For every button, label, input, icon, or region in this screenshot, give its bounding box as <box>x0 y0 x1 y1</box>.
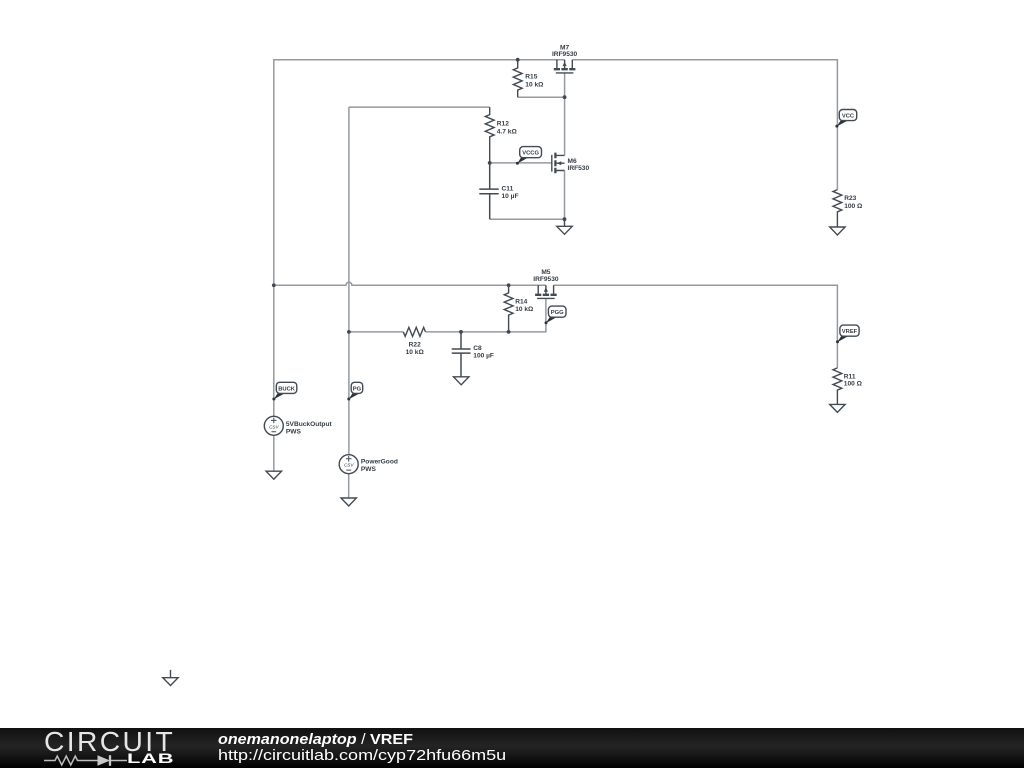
wire second rail right segment to VREF drop <box>554 285 838 368</box>
svg-text:CSV: CSV <box>344 463 354 468</box>
capacitor C11 <box>479 163 498 219</box>
flag VCCG <box>516 147 542 165</box>
resistor R14 <box>504 285 513 332</box>
footer bar <box>0 728 1024 768</box>
svg-text:C11: C11 <box>502 185 514 192</box>
node R14 top <box>507 283 511 287</box>
ground under R23 <box>830 227 845 235</box>
wire R15 bottom to M7 gate node <box>518 96 565 98</box>
node R14 bottom <box>507 330 511 334</box>
wire R22 row to M5 gate <box>349 298 546 332</box>
wire top-left BUCK net (top rail + left drop to source) <box>274 60 565 417</box>
svg-text:10 kΩ: 10 kΩ <box>515 306 534 313</box>
node R15 top <box>516 58 520 62</box>
resistor R15 <box>513 60 522 97</box>
svg-text:R23: R23 <box>844 195 856 202</box>
node M7 gate / R15 <box>563 95 567 99</box>
wire M7 gate down to node and M6 drain <box>564 73 566 155</box>
ground under PowerGood <box>341 498 356 506</box>
svg-text:VCC: VCC <box>842 114 855 120</box>
svg-text:100 µF: 100 µF <box>473 353 494 360</box>
ground under R11 <box>830 404 845 412</box>
footer title line <box>218 732 413 748</box>
transistor M6 IRF530 (NMOS) <box>552 153 565 174</box>
ground under M6 <box>557 219 572 234</box>
wire PG vertical <box>348 107 350 455</box>
ground under 5VBuckOutput <box>266 471 281 479</box>
svg-text:VCCG: VCCG <box>522 151 539 157</box>
source V1 5VBuckOutput PWS <box>264 416 283 435</box>
flag VREF <box>836 325 859 343</box>
ground under C8 <box>454 377 469 385</box>
resistor R11 <box>833 368 842 405</box>
svg-text:M6: M6 <box>568 158 577 165</box>
node VCCG <box>488 161 492 165</box>
node C8 top <box>459 330 463 334</box>
wire R12 top feed <box>349 106 490 108</box>
source V2 PowerGood PWS <box>339 455 358 474</box>
flag VCC <box>835 110 856 128</box>
svg-text:10 kΩ: 10 kΩ <box>406 349 425 356</box>
lone ground bottom-left <box>163 670 178 686</box>
node M6 source ground <box>563 217 567 221</box>
logo LAB text <box>127 751 174 766</box>
resistor R23 <box>833 190 842 227</box>
svg-text:IRF9530: IRF9530 <box>533 276 559 283</box>
svg-text:100 Ω: 100 Ω <box>844 203 863 210</box>
CircuitLab logo wordmark <box>44 725 175 758</box>
svg-text:PGG: PGG <box>551 310 564 316</box>
svg-text:PG: PG <box>353 386 362 392</box>
svg-text:C8: C8 <box>473 345 482 352</box>
svg-text:IRF9530: IRF9530 <box>552 51 578 58</box>
flag BUCK <box>272 382 296 400</box>
svg-text:R11: R11 <box>844 373 856 380</box>
svg-text:VREF: VREF <box>842 329 858 335</box>
resistor R12 <box>485 107 494 163</box>
node BUCK rail tap <box>272 283 276 287</box>
wire 5VBuckOutput source bottom <box>273 435 275 471</box>
svg-text:IRF530: IRF530 <box>568 165 590 172</box>
flag PG <box>347 382 362 400</box>
wire C11 bottom to ground node <box>490 218 565 220</box>
logo resistor-diode squiggle <box>44 754 130 767</box>
capacitor C8 <box>452 332 471 377</box>
flag PGG <box>545 306 567 324</box>
footer url line <box>218 747 506 764</box>
svg-text:BUCK: BUCK <box>278 386 296 392</box>
svg-text:10 kΩ: 10 kΩ <box>525 81 544 88</box>
svg-text:R22: R22 <box>409 341 421 348</box>
wire M6 source down <box>564 171 566 220</box>
svg-text:100 Ω: 100 Ω <box>844 381 863 388</box>
transistor M7 IRF9530 (PMOS, pins up) <box>554 60 576 73</box>
resistor R22 <box>403 327 425 336</box>
svg-text:PWS: PWS <box>361 466 377 473</box>
node R22 left <box>347 330 351 334</box>
svg-text:R14: R14 <box>515 298 527 305</box>
wire PowerGood source bottom <box>348 474 350 498</box>
svg-text:R12: R12 <box>497 120 509 127</box>
svg-text:CSV: CSV <box>269 424 279 429</box>
svg-text:R15: R15 <box>525 73 537 80</box>
wire top-right VCC net (rail + right drop to R23) <box>572 60 837 190</box>
svg-text:5VBuckOutput: 5VBuckOutput <box>286 421 333 428</box>
wire second rail left segment with hop <box>274 282 546 285</box>
svg-text:PowerGood: PowerGood <box>361 459 398 466</box>
svg-text:PWS: PWS <box>286 428 302 435</box>
svg-text:4.7 kΩ: 4.7 kΩ <box>497 128 518 135</box>
svg-text:10 µF: 10 µF <box>502 193 519 200</box>
wire VCCG node to M6 gate <box>490 162 552 164</box>
transistor M5 IRF9530 (PMOS, pins up) <box>535 285 557 298</box>
node junction dots <box>272 58 567 334</box>
